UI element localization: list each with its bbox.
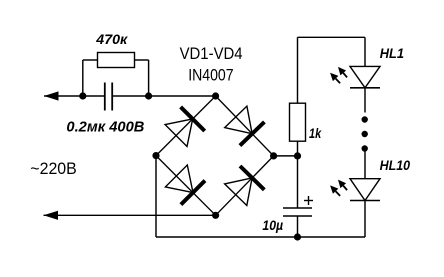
svg-text:IN4007: IN4007	[188, 66, 233, 85]
wire: down to HL1	[364, 37, 366, 66]
wire: bridge edge bottom-right	[216, 156, 274, 215]
capacitor C2 10u (electrolytic)	[283, 208, 312, 216]
terminal arrow (mains, top)	[44, 91, 59, 100]
wire: bridge edge bottom-left	[156, 156, 216, 216]
wire: R1 right leg down	[148, 60, 150, 96]
wire: top AC line left of C1	[44, 95, 105, 97]
junction: C2 / DC- rail	[294, 233, 301, 240]
svg-text:10µ: 10µ	[262, 217, 283, 233]
wire: bridge edge top-left	[156, 96, 216, 156]
wire: top DC+ rail	[298, 36, 366, 38]
node: bridge right (DC+)	[270, 152, 277, 159]
diode VD4 (bottom-right)	[225, 166, 265, 206]
wire: HL10 cathode down to rail	[364, 201, 366, 238]
wire: bridge right node to junction	[274, 155, 298, 157]
node: bridge bottom (AC)	[212, 212, 219, 219]
diode VD3 (left-bottom)	[165, 165, 205, 205]
wire: C2 bottom to rail	[297, 216, 299, 237]
svg-text:HL1: HL1	[380, 45, 404, 61]
ellipsis dot 1	[362, 116, 368, 122]
wire: bottom DC- rail	[156, 236, 365, 238]
svg-text:~220В: ~220В	[30, 159, 77, 178]
wire: down to HL10	[364, 152, 366, 179]
terminal arrow (mains, bottom)	[44, 211, 59, 220]
ellipsis dot 3	[362, 145, 368, 151]
junction: R1 right leg / AC line	[145, 92, 152, 99]
diode VD2 (top-right)	[225, 106, 265, 146]
junction: R2/C2 node	[294, 152, 301, 159]
node: bridge left (DC-)	[152, 152, 159, 159]
wire: R2 bottom lead	[297, 141, 299, 156]
wire: bridge edge top-right	[216, 96, 274, 156]
junction: R1 left leg / AC line	[79, 92, 86, 99]
wire: junction down to C2	[297, 156, 299, 208]
svg-text:1k: 1k	[309, 125, 322, 141]
svg-text:HL10: HL10	[380, 157, 411, 173]
wire: bottom AC line	[44, 214, 216, 216]
wire: HL1 cathode down	[364, 88, 366, 113]
diode VD1 (left-top)	[165, 107, 205, 147]
LED HL1	[330, 66, 380, 87]
node: bridge top (AC)	[212, 92, 219, 99]
wire: DC- from bridge left node down	[155, 156, 157, 237]
resistor R2 1k	[290, 103, 306, 141]
ellipsis dot 2	[362, 131, 368, 137]
polarity plus sign of C2	[304, 196, 313, 205]
svg-text:0.2мк 400В: 0.2мк 400В	[66, 119, 144, 135]
wire: R2 top lead up	[297, 37, 299, 103]
svg-text:470к: 470к	[95, 31, 128, 47]
wire: R1 left leg down	[82, 60, 84, 96]
svg-text:VD1-VD4: VD1-VD4	[180, 44, 243, 63]
wire: top AC line right of C1	[112, 95, 215, 97]
resistor R1 470k	[83, 53, 149, 68]
capacitor C1 0.2mk 400V	[105, 83, 112, 111]
LED HL10	[330, 179, 380, 201]
